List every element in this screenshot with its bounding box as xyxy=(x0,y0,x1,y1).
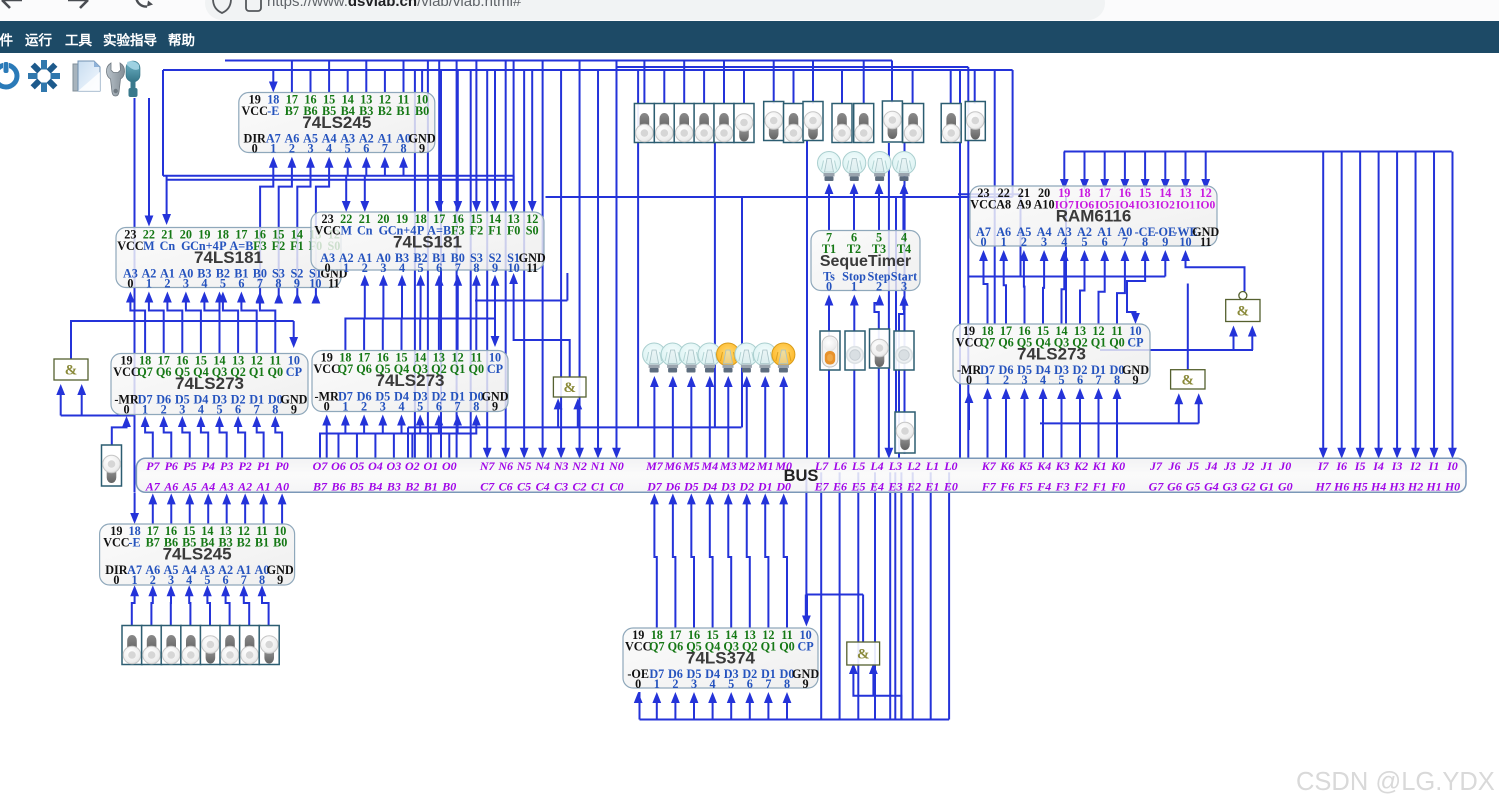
svg-text:G3: G3 xyxy=(1223,480,1238,494)
svg-text:74LS273: 74LS273 xyxy=(175,374,244,393)
svg-text:11: 11 xyxy=(328,277,340,291)
svg-text:A10: A10 xyxy=(1034,197,1055,211)
svg-text:3: 3 xyxy=(1041,235,1047,249)
svg-text:2: 2 xyxy=(672,677,678,691)
svg-text:5: 5 xyxy=(345,142,351,156)
svg-text:Q7: Q7 xyxy=(980,335,996,349)
svg-text:4: 4 xyxy=(398,400,404,414)
svg-text:A9: A9 xyxy=(1016,197,1031,211)
svg-text:B3: B3 xyxy=(386,480,401,494)
svg-text:F2: F2 xyxy=(272,239,286,253)
svg-text:10: 10 xyxy=(508,261,520,275)
svg-text:I7: I7 xyxy=(1317,459,1330,473)
svg-text:3: 3 xyxy=(183,277,189,291)
svg-text:J7: J7 xyxy=(1149,459,1163,473)
svg-text:9: 9 xyxy=(803,677,809,691)
svg-text:Cn: Cn xyxy=(357,223,373,237)
svg-text:F1: F1 xyxy=(290,239,304,253)
svg-text:0: 0 xyxy=(113,573,119,587)
svg-text:E6: E6 xyxy=(832,480,847,494)
svg-text:Q6: Q6 xyxy=(156,365,172,379)
svg-text:5: 5 xyxy=(1081,235,1087,249)
svg-text:IO1: IO1 xyxy=(1176,198,1196,211)
svg-text:3: 3 xyxy=(380,400,386,414)
svg-text:CP: CP xyxy=(1127,335,1144,349)
svg-text:K5: K5 xyxy=(1018,459,1033,473)
svg-text:P3: P3 xyxy=(220,459,233,473)
svg-text:B0: B0 xyxy=(441,480,456,494)
svg-text:K2: K2 xyxy=(1073,459,1088,473)
svg-text:O0: O0 xyxy=(442,459,457,473)
svg-text:9: 9 xyxy=(419,142,425,156)
svg-text:74LS181: 74LS181 xyxy=(194,248,263,267)
svg-text:E1: E1 xyxy=(924,480,939,494)
svg-text:CSDN @LG.YDX: CSDN @LG.YDX xyxy=(1296,768,1495,796)
svg-text:BUS: BUS xyxy=(784,467,819,485)
svg-text:B2: B2 xyxy=(378,104,392,118)
svg-text:6: 6 xyxy=(747,677,753,691)
svg-text:A7: A7 xyxy=(145,480,161,494)
svg-text:11: 11 xyxy=(526,261,538,275)
svg-text:F0: F0 xyxy=(507,223,521,237)
svg-text:8: 8 xyxy=(784,677,790,691)
svg-text:L5: L5 xyxy=(851,459,865,473)
svg-text:1: 1 xyxy=(851,280,857,294)
svg-text:1: 1 xyxy=(270,142,276,156)
svg-text:C3: C3 xyxy=(554,480,568,494)
svg-text:10: 10 xyxy=(1179,235,1191,249)
svg-text:2: 2 xyxy=(161,403,167,417)
svg-text:IO0: IO0 xyxy=(1196,198,1216,211)
svg-text:A4: A4 xyxy=(200,480,215,494)
svg-text:E0: E0 xyxy=(943,480,958,494)
svg-text:J4: J4 xyxy=(1204,459,1217,473)
svg-text:L6: L6 xyxy=(832,459,846,473)
svg-text:E3: E3 xyxy=(887,480,902,494)
svg-text:D2: D2 xyxy=(738,480,754,494)
svg-text:K7: K7 xyxy=(981,459,997,473)
svg-text:H0: H0 xyxy=(1444,480,1460,494)
svg-text:P5: P5 xyxy=(183,459,196,473)
svg-text:M6: M6 xyxy=(664,459,682,473)
svg-text:Q0: Q0 xyxy=(779,639,795,653)
svg-text:9: 9 xyxy=(1162,235,1168,249)
svg-text:N1: N1 xyxy=(590,459,606,473)
svg-text:IO3: IO3 xyxy=(1135,198,1155,211)
svg-text:J1: J1 xyxy=(1260,459,1273,473)
svg-text:7: 7 xyxy=(765,677,771,691)
svg-text:&: & xyxy=(1237,304,1250,320)
svg-text:7: 7 xyxy=(254,403,260,417)
svg-text:6: 6 xyxy=(238,277,244,291)
svg-text:VCC: VCC xyxy=(956,335,982,349)
svg-text:74LS273: 74LS273 xyxy=(376,371,445,390)
svg-text:0: 0 xyxy=(325,261,331,275)
svg-text:Q6: Q6 xyxy=(356,362,372,376)
svg-text:Q1: Q1 xyxy=(1091,335,1107,349)
svg-text:SequeTimer: SequeTimer xyxy=(820,253,911,270)
svg-text:IO2: IO2 xyxy=(1156,198,1176,211)
svg-text:I5: I5 xyxy=(1354,459,1366,473)
svg-text:G0: G0 xyxy=(1278,480,1293,494)
svg-text:8: 8 xyxy=(272,403,278,417)
svg-text:Q1: Q1 xyxy=(249,365,265,379)
svg-text:3: 3 xyxy=(691,677,697,691)
svg-text:RAM6116: RAM6116 xyxy=(1056,206,1132,225)
svg-text:L0: L0 xyxy=(943,459,957,473)
svg-text:M: M xyxy=(340,223,352,237)
svg-text:N5: N5 xyxy=(516,459,532,473)
svg-text:-E: -E xyxy=(267,104,279,118)
svg-text:G6: G6 xyxy=(1167,480,1182,494)
svg-text:I4: I4 xyxy=(1372,459,1384,473)
svg-text:J6: J6 xyxy=(1167,459,1180,473)
svg-text:0: 0 xyxy=(980,235,986,249)
svg-text:9: 9 xyxy=(277,573,283,587)
svg-text:74LS245: 74LS245 xyxy=(163,544,232,563)
svg-text:74LS374: 74LS374 xyxy=(686,648,756,667)
svg-text:J3: J3 xyxy=(1223,459,1236,473)
svg-text:3: 3 xyxy=(168,573,174,587)
svg-text:H7: H7 xyxy=(1315,480,1332,494)
svg-text:O4: O4 xyxy=(368,459,383,473)
svg-text:B7: B7 xyxy=(285,104,299,118)
svg-text:5: 5 xyxy=(1058,373,1064,387)
svg-text:2: 2 xyxy=(361,400,367,414)
svg-text:D1: D1 xyxy=(757,480,773,494)
svg-text:P0: P0 xyxy=(275,459,288,473)
svg-text:3: 3 xyxy=(179,403,185,417)
svg-text:C6: C6 xyxy=(499,480,513,494)
svg-text:VCC: VCC xyxy=(313,362,339,376)
svg-text:H3: H3 xyxy=(1388,480,1404,494)
svg-text:M7: M7 xyxy=(645,459,664,473)
svg-text:N3: N3 xyxy=(553,459,569,473)
svg-text:0: 0 xyxy=(123,403,129,417)
svg-text:0: 0 xyxy=(324,400,330,414)
svg-text:Q1: Q1 xyxy=(761,639,777,653)
svg-text:1: 1 xyxy=(146,277,152,291)
svg-text:H5: H5 xyxy=(1351,480,1367,494)
svg-text:0: 0 xyxy=(252,142,258,156)
svg-text:K0: K0 xyxy=(1110,459,1125,473)
svg-text:K3: K3 xyxy=(1055,459,1070,473)
svg-text:F1: F1 xyxy=(488,223,502,237)
svg-text:F4: F4 xyxy=(1036,480,1051,494)
svg-text:7: 7 xyxy=(241,573,247,587)
svg-text:7: 7 xyxy=(257,277,263,291)
svg-text:2: 2 xyxy=(150,573,156,587)
svg-text:F2: F2 xyxy=(1073,480,1088,494)
svg-text:4: 4 xyxy=(1040,373,1046,387)
svg-text:6: 6 xyxy=(235,403,241,417)
svg-text:J5: J5 xyxy=(1186,459,1199,473)
svg-text:F7: F7 xyxy=(981,480,997,494)
svg-text:8: 8 xyxy=(400,142,406,156)
svg-text:6: 6 xyxy=(223,573,229,587)
svg-text:O3: O3 xyxy=(387,459,402,473)
svg-text:E5: E5 xyxy=(851,480,866,494)
svg-text:Q0: Q0 xyxy=(268,365,284,379)
svg-text:&: & xyxy=(857,647,870,663)
svg-text:B4: B4 xyxy=(367,480,382,494)
svg-text:A8: A8 xyxy=(996,197,1011,211)
svg-text:6: 6 xyxy=(436,261,442,275)
svg-text:F3: F3 xyxy=(1055,480,1070,494)
svg-text:5: 5 xyxy=(204,573,210,587)
svg-text:C5: C5 xyxy=(517,480,531,494)
svg-text:P7: P7 xyxy=(146,459,160,473)
svg-text:D5: D5 xyxy=(683,480,699,494)
svg-text:H6: H6 xyxy=(1333,480,1349,494)
svg-text:F6: F6 xyxy=(999,480,1014,494)
svg-text:M5: M5 xyxy=(682,459,700,473)
svg-text:&: & xyxy=(1182,372,1195,388)
svg-text:A2: A2 xyxy=(237,480,252,494)
svg-text:E4: E4 xyxy=(869,480,884,494)
svg-text:5: 5 xyxy=(728,677,734,691)
svg-text:B7: B7 xyxy=(146,535,160,549)
svg-text:74LS273: 74LS273 xyxy=(1017,344,1086,363)
svg-text:I2: I2 xyxy=(1409,459,1421,473)
svg-text:F5: F5 xyxy=(1018,480,1033,494)
svg-text:H2: H2 xyxy=(1407,480,1423,494)
svg-text:O6: O6 xyxy=(331,459,346,473)
svg-text:VCC: VCC xyxy=(103,535,129,549)
svg-text:4: 4 xyxy=(326,142,332,156)
svg-text:G1: G1 xyxy=(1259,480,1274,494)
svg-text:&: & xyxy=(65,363,78,379)
svg-text:0: 0 xyxy=(966,373,972,387)
svg-text:Q1: Q1 xyxy=(450,362,466,376)
svg-text:A3: A3 xyxy=(219,480,234,494)
svg-text:O2: O2 xyxy=(405,459,420,473)
svg-text:4: 4 xyxy=(399,261,405,275)
svg-text:6: 6 xyxy=(1077,373,1083,387)
svg-text:1: 1 xyxy=(142,403,148,417)
svg-text:9: 9 xyxy=(1132,373,1138,387)
svg-text:2: 2 xyxy=(164,277,170,291)
svg-text:C2: C2 xyxy=(573,480,587,494)
svg-text:0: 0 xyxy=(635,677,641,691)
svg-text:74LS181: 74LS181 xyxy=(393,232,462,251)
svg-text:M3: M3 xyxy=(719,459,737,473)
svg-text:Cn: Cn xyxy=(160,239,176,253)
svg-text:8: 8 xyxy=(259,573,265,587)
svg-text:-E: -E xyxy=(129,535,141,549)
svg-text:C7: C7 xyxy=(480,480,495,494)
svg-text:H1: H1 xyxy=(1425,480,1441,494)
svg-text:Q6: Q6 xyxy=(668,639,684,653)
svg-text:2: 2 xyxy=(1021,235,1027,249)
svg-text:4: 4 xyxy=(1061,235,1067,249)
svg-text:1: 1 xyxy=(343,261,349,275)
svg-text:CP: CP xyxy=(487,362,504,376)
svg-text:&: & xyxy=(563,380,576,396)
svg-text:10: 10 xyxy=(309,277,321,291)
svg-text:0: 0 xyxy=(826,280,832,294)
svg-text:G4: G4 xyxy=(1204,480,1219,494)
svg-text:B6: B6 xyxy=(330,480,345,494)
svg-text:G2: G2 xyxy=(1241,480,1256,494)
svg-text:7: 7 xyxy=(1122,235,1128,249)
svg-text:4: 4 xyxy=(198,403,204,417)
svg-text:4: 4 xyxy=(186,573,192,587)
svg-text:B2: B2 xyxy=(404,480,419,494)
svg-text:9: 9 xyxy=(492,261,498,275)
svg-text:3: 3 xyxy=(1021,373,1027,387)
svg-text:7: 7 xyxy=(382,142,388,156)
svg-text:1: 1 xyxy=(1001,235,1007,249)
svg-text:F0: F0 xyxy=(1110,480,1125,494)
svg-text:1: 1 xyxy=(984,373,990,387)
svg-text:I1: I1 xyxy=(1428,459,1440,473)
svg-text:2: 2 xyxy=(362,261,368,275)
svg-text:S0: S0 xyxy=(526,223,539,237)
svg-text:K4: K4 xyxy=(1036,459,1051,473)
svg-text:D3: D3 xyxy=(720,480,736,494)
svg-text:4: 4 xyxy=(710,677,716,691)
svg-text:D7: D7 xyxy=(646,480,663,494)
svg-text:Q7: Q7 xyxy=(338,362,354,376)
svg-text:E2: E2 xyxy=(906,480,921,494)
svg-text:L4: L4 xyxy=(869,459,883,473)
svg-text:VCC: VCC xyxy=(241,104,267,118)
svg-text:A5: A5 xyxy=(182,480,197,494)
svg-text:1: 1 xyxy=(654,677,660,691)
svg-text:5: 5 xyxy=(220,277,226,291)
svg-text:6: 6 xyxy=(363,142,369,156)
svg-text:2: 2 xyxy=(876,280,882,294)
svg-text:Q7: Q7 xyxy=(137,365,153,379)
svg-text:L2: L2 xyxy=(906,459,920,473)
svg-text:3: 3 xyxy=(380,261,386,275)
svg-text:G7: G7 xyxy=(1149,480,1165,494)
svg-text:F1: F1 xyxy=(1092,480,1107,494)
svg-text:8: 8 xyxy=(1142,235,1148,249)
svg-text:J0: J0 xyxy=(1278,459,1291,473)
svg-text:CP: CP xyxy=(797,639,814,653)
svg-text:B7: B7 xyxy=(312,480,328,494)
svg-text:B0: B0 xyxy=(273,535,287,549)
svg-text:B1: B1 xyxy=(396,104,410,118)
svg-text:A0: A0 xyxy=(274,480,289,494)
svg-text:N0: N0 xyxy=(608,459,624,473)
svg-text:N2: N2 xyxy=(571,459,587,473)
svg-text:N4: N4 xyxy=(534,459,550,473)
svg-text:Q7: Q7 xyxy=(649,639,665,653)
svg-text:7: 7 xyxy=(455,261,461,275)
svg-text:5: 5 xyxy=(417,400,423,414)
svg-text:B2: B2 xyxy=(237,535,251,549)
svg-text:P1: P1 xyxy=(257,459,270,473)
svg-text:M1: M1 xyxy=(756,459,774,473)
svg-text:K6: K6 xyxy=(999,459,1014,473)
svg-text:8: 8 xyxy=(473,261,479,275)
svg-text:3: 3 xyxy=(307,142,313,156)
svg-text:5: 5 xyxy=(418,261,424,275)
svg-text:B0: B0 xyxy=(415,104,429,118)
svg-text:C0: C0 xyxy=(609,480,623,494)
svg-text:H4: H4 xyxy=(1370,480,1386,494)
svg-text:9: 9 xyxy=(492,400,498,414)
svg-text:8: 8 xyxy=(1114,373,1120,387)
svg-text:C4: C4 xyxy=(536,480,550,494)
svg-text:6: 6 xyxy=(1102,235,1108,249)
svg-text:2: 2 xyxy=(1003,373,1009,387)
svg-text:VCC: VCC xyxy=(314,223,340,237)
svg-text:3: 3 xyxy=(901,280,907,294)
svg-text:F2: F2 xyxy=(470,223,484,237)
svg-text:Q0: Q0 xyxy=(1109,335,1125,349)
svg-text:M2: M2 xyxy=(737,459,755,473)
svg-text:I3: I3 xyxy=(1391,459,1403,473)
svg-text:L3: L3 xyxy=(888,459,902,473)
svg-text:I0: I0 xyxy=(1446,459,1458,473)
svg-text:VCC: VCC xyxy=(117,239,143,253)
svg-text:11: 11 xyxy=(1200,235,1212,249)
svg-text:6: 6 xyxy=(436,400,442,414)
svg-text:P2: P2 xyxy=(238,459,251,473)
svg-text:K1: K1 xyxy=(1092,459,1107,473)
svg-text:VCC: VCC xyxy=(625,639,651,653)
svg-text:1: 1 xyxy=(132,573,138,587)
svg-text:C1: C1 xyxy=(591,480,605,494)
svg-text:D4: D4 xyxy=(701,480,717,494)
svg-text:M4: M4 xyxy=(700,459,718,473)
svg-text:B1: B1 xyxy=(255,535,269,549)
svg-text:P4: P4 xyxy=(202,459,215,473)
svg-text:5: 5 xyxy=(216,403,222,417)
svg-text:N7: N7 xyxy=(479,459,496,473)
svg-text:A6: A6 xyxy=(163,480,178,494)
svg-text:2: 2 xyxy=(289,142,295,156)
svg-text:9: 9 xyxy=(294,277,300,291)
svg-text:VCC: VCC xyxy=(113,365,139,379)
svg-text:O7: O7 xyxy=(313,459,329,473)
svg-text:I6: I6 xyxy=(1335,459,1347,473)
svg-text:B5: B5 xyxy=(349,480,364,494)
svg-text:9: 9 xyxy=(291,403,297,417)
svg-text:1: 1 xyxy=(342,400,348,414)
svg-text:Q0: Q0 xyxy=(469,362,485,376)
svg-text:74LS245: 74LS245 xyxy=(302,113,371,132)
svg-text:M: M xyxy=(143,239,155,253)
svg-text:7: 7 xyxy=(1095,373,1101,387)
svg-text:B1: B1 xyxy=(423,480,438,494)
svg-text:O1: O1 xyxy=(423,459,438,473)
svg-text:0: 0 xyxy=(127,277,133,291)
svg-text:J2: J2 xyxy=(1241,459,1254,473)
svg-text:N6: N6 xyxy=(497,459,513,473)
svg-text:L1: L1 xyxy=(925,459,939,473)
svg-text:4: 4 xyxy=(201,277,207,291)
svg-text:P6: P6 xyxy=(165,459,178,473)
svg-text:O5: O5 xyxy=(350,459,365,473)
svg-text:VCC: VCC xyxy=(970,197,996,211)
svg-text:G5: G5 xyxy=(1186,480,1201,494)
svg-text:7: 7 xyxy=(455,400,461,414)
svg-text:D6: D6 xyxy=(665,480,681,494)
svg-text:8: 8 xyxy=(473,400,479,414)
svg-text:Q6: Q6 xyxy=(998,335,1014,349)
svg-text:A1: A1 xyxy=(256,480,271,494)
svg-text:CP: CP xyxy=(286,365,303,379)
svg-text:8: 8 xyxy=(275,277,281,291)
